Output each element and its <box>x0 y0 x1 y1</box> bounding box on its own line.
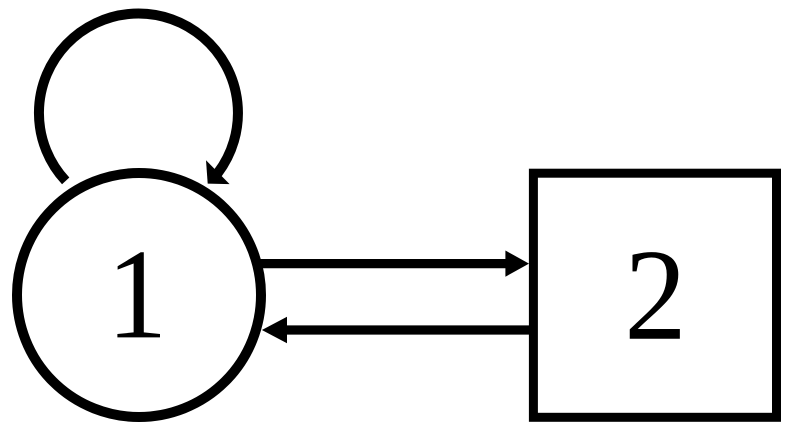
state node 2 (square) <box>533 173 776 417</box>
svg-text:1: 1 <box>107 224 167 366</box>
edge 2 to 1 arrowhead <box>262 317 287 344</box>
state node 1 (circle) <box>17 173 261 417</box>
self-loop arrowhead <box>206 160 230 184</box>
edge 1 to 2 (wire) <box>259 259 506 268</box>
edge 2 to 1 (wire) <box>287 325 530 334</box>
edge 1 to 2 arrowhead <box>505 251 529 277</box>
svg-text:2: 2 <box>624 222 686 367</box>
self-loop arc on node 1 <box>39 14 238 181</box>
